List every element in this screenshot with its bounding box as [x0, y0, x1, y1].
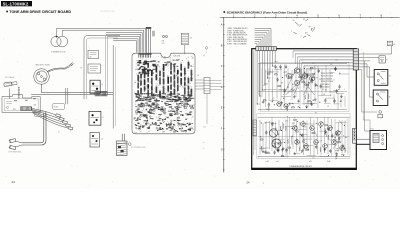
svg-text:24: 24 [12, 180, 16, 184]
tone arm drive motor [51, 36, 68, 47]
svg-text:0.01: 0.01 [340, 101, 343, 103]
svg-text:TR: TR [274, 135, 276, 137]
svg-text:TONE ARM DRIVE CIRCUIT BOARD: TONE ARM DRIVE CIRCUIT BOARD [9, 10, 71, 14]
lower circuit texture [259, 117, 348, 159]
svg-text:4-1: 4-1 [203, 142, 205, 144]
svg-text:0.01: 0.01 [328, 128, 331, 130]
lower left inside ladder connector [253, 120, 256, 136]
upper circuit texture [259, 64, 349, 111]
svg-text:D: D [293, 104, 294, 106]
svg-text:0.01: 0.01 [266, 151, 269, 153]
svg-text:SP: SP [311, 28, 313, 30]
svg-text:10K: 10K [266, 109, 268, 111]
svg-text:100: 100 [322, 89, 324, 91]
wire cam wheel down [41, 84, 43, 92]
right edge connector strip [353, 49, 358, 70]
lower transistors [293, 122, 345, 151]
lower rail wires [258, 116, 350, 158]
callout tag A [35, 111, 46, 116]
transistor Q203 [302, 73, 307, 78]
wire pin ladder down to PCB [184, 45, 186, 54]
parts list text block [321, 73, 333, 89]
svg-text:TONE ARM DRIVE CIRCUIT: TONE ARM DRIVE CIRCUIT [289, 165, 312, 168]
svg-text:G: G [221, 148, 223, 151]
ribbon cable from plug down to board [10, 87, 20, 100]
svg-text:C: C [344, 89, 345, 91]
svg-text:220: 220 [309, 70, 311, 72]
bold wire board to transformer [356, 143, 370, 145]
svg-text:2.2K: 2.2K [320, 141, 323, 143]
svg-text:2 RED : POWER SW B+: 2 RED : POWER SW B+ [227, 30, 244, 32]
PCB pin hatch top left [138, 53, 151, 57]
svg-text:220: 220 [337, 150, 339, 152]
svg-text:202: 202 [297, 24, 300, 26]
fork plug lower [9, 145, 22, 150]
fan plug 4 [66, 124, 71, 127]
chassis bottom hatched connector [95, 91, 107, 96]
svg-text:SvcMnls Net: SvcMnls Net [101, 10, 115, 13]
svg-text:TR: TR [299, 123, 301, 125]
svg-text:33K: 33K [304, 126, 306, 128]
svg-text:TR201 2SC1740S: TR201 2SC1740S [321, 73, 333, 75]
fan plug 1 [56, 114, 61, 118]
decoupling capacitors [274, 65, 287, 69]
bottom margin part labels [266, 161, 331, 163]
svg-text:VR: VR [327, 106, 329, 108]
svg-text:2P: 2P [58, 132, 60, 134]
transistor Q202 [294, 68, 299, 73]
power transformer box T101 [370, 128, 387, 149]
pin ladder connector above PCB [181, 33, 192, 45]
svg-text:-02: -02 [102, 117, 104, 119]
svg-text:4.7K: 4.7K [330, 64, 333, 66]
dotted test point flag [203, 47, 208, 58]
svg-text:R: R [314, 67, 315, 69]
board top edge connector strip [256, 47, 277, 51]
main schematic board frame [252, 49, 357, 169]
adjustment callout arrows [291, 19, 315, 38]
wire harness to PCB 3 [106, 33, 142, 53]
wire harness to PCB 7 [113, 41, 136, 53]
svg-text:SL-1700MK2: SL-1700MK2 [3, 1, 29, 6]
switch box S3 with contacts [90, 80, 103, 93]
fan plug 3 [63, 121, 68, 124]
svg-text:7-0: 7-0 [203, 148, 205, 150]
svg-text:3 ORN : MUTING SW (2P): 3 ORN : MUTING SW (2P) [227, 33, 246, 35]
svg-text:R: R [343, 136, 344, 138]
plug at far left with label [4, 81, 17, 86]
drive motor symbol [269, 129, 281, 148]
svg-text:47: 47 [268, 81, 270, 83]
svg-text:VR: VR [309, 26, 311, 28]
svg-text:10K: 10K [314, 144, 316, 146]
svg-text:PxxB: PxxB [327, 161, 330, 163]
svg-text:3P: 3P [70, 131, 72, 133]
bottom left circuit board outline [2, 95, 40, 113]
transistor Q207 [284, 104, 288, 108]
svg-text:4.7K: 4.7K [284, 75, 287, 77]
chassis base plate outline [84, 36, 120, 129]
switch box S2 on chassis [80, 64, 100, 73]
harness wires to board connector [255, 29, 271, 47]
svg-text:1K: 1K [294, 117, 296, 119]
svg-text:(TO CONTROL UNIT): (TO CONTROL UNIT) [131, 147, 146, 149]
fan plug 2 [59, 117, 64, 121]
svg-text:C: C [221, 65, 223, 68]
svg-text:SUP-1088: SUP-1088 [173, 56, 180, 58]
diagonal coupling wires [284, 70, 316, 95]
svg-text:(TO POWER UNIT): (TO POWER UNIT) [8, 151, 22, 153]
drop cable pair to fork connector [22, 113, 46, 146]
scan noise speckle [1, 0, 399, 188]
screw hole marker [129, 143, 132, 146]
upper rail wires [258, 64, 347, 110]
arm elevation cam wheel [34, 69, 50, 85]
svg-text:2.2K: 2.2K [284, 71, 287, 73]
svg-text:S1: S1 [389, 76, 391, 78]
grid ruler top [220, 14, 400, 19]
right page heading SCHEMATIC DIAGRAM 2 [224, 11, 307, 15]
cable pair to chassis right [42, 92, 114, 94]
switch box S5 [90, 133, 103, 148]
wire stubs PCB to right margin connector [195, 80, 204, 89]
svg-text:S2: S2 [389, 97, 391, 99]
wire motor to PCB 1 [57, 28, 146, 52]
crossing cable verticals [65, 88, 67, 104]
svg-text:100: 100 [335, 59, 337, 61]
svg-text:100: 100 [319, 79, 321, 81]
svg-text:D: D [221, 86, 223, 89]
svg-text:168: 168 [89, 56, 92, 58]
svg-text:SCHEMATIC DIAGRAM 2 (Tone Arm: SCHEMATIC DIAGRAM 2 (Tone Arm Drive Circ… [227, 11, 307, 15]
svg-text:47: 47 [258, 157, 260, 159]
wire margin column down [206, 94, 208, 125]
svg-text:7 GRY : UP/DOWN SW (2P): 7 GRY : UP/DOWN SW (2P) [227, 41, 247, 43]
board edge connector hatched [21, 107, 32, 110]
bus wires to right edge connector [293, 51, 353, 94]
harness wiring note list [227, 27, 248, 45]
callout tag B [53, 104, 65, 110]
transistor Q201 [286, 73, 291, 78]
svg-text:s-101: s-101 [266, 161, 270, 163]
svg-text:4.7K: 4.7K [298, 142, 301, 144]
cable fan from board connector [32, 108, 68, 128]
svg-text:R: R [272, 92, 273, 94]
svg-text:(3P): (3P) [162, 43, 165, 45]
svg-text:506: 506 [190, 38, 193, 40]
svg-text:220: 220 [312, 158, 314, 160]
svg-text:47: 47 [293, 129, 295, 131]
PCB component texture [134, 56, 195, 133]
svg-text:ss22: ss22 [309, 161, 312, 163]
svg-text:PL: PL [386, 59, 388, 61]
AC inlet symbol [388, 41, 396, 46]
svg-text:-01: -01 [101, 84, 103, 86]
transistor Q204 [294, 80, 299, 85]
power switch box S101 [374, 70, 391, 86]
grid ruler left [221, 18, 225, 173]
svg-text:D: D [302, 60, 303, 62]
svg-text:4.7K: 4.7K [292, 123, 295, 125]
fork plug upper [9, 139, 22, 143]
svg-text:-03: -03 [101, 139, 103, 141]
svg-text:7-01: 7-01 [203, 127, 206, 129]
transistor Q206 [277, 102, 281, 106]
svg-text:47: 47 [333, 79, 335, 81]
cut switch box S102 [373, 90, 390, 106]
fuse holder symbol [378, 111, 383, 118]
switch box S4 with contacts [89, 111, 104, 125]
model label plate SL-1700MK2 [1, 1, 32, 6]
svg-text:47: 47 [298, 88, 300, 90]
svg-text:4.7K: 4.7K [285, 120, 288, 122]
component value sprinkle labels [258, 59, 345, 159]
wires into PCB top pins [146, 27, 155, 54]
svg-text:TR204 2SC1740S: TR204 2SC1740S [321, 81, 333, 83]
svg-text:100: 100 [263, 85, 265, 87]
wires from right strip to external parts [359, 46, 392, 131]
svg-text:T101: T101 [370, 128, 374, 130]
wire motor to PCB 2 [62, 30, 144, 52]
board right edge connector [353, 128, 357, 143]
svg-text:5 GRN : ELEV. SW (3P): 5 GRN : ELEV. SW (3P) [227, 37, 244, 39]
svg-text:501: 501 [197, 75, 200, 77]
svg-text:sw-5: sw-5 [276, 161, 279, 163]
connector label group above PCB [162, 35, 168, 44]
upper sub-board outline [261, 62, 350, 112]
right margin connector column [197, 75, 222, 93]
svg-text:4.7K: 4.7K [312, 63, 315, 65]
switch box S1 on chassis [88, 50, 98, 58]
pilot lamp symbol [379, 56, 388, 63]
wire harness to PCB 6 [113, 39, 138, 53]
main frame thick bottom edge [251, 168, 357, 170]
svg-text:201: 201 [303, 19, 306, 21]
tone arm drive circuit board PCB outline [132, 53, 195, 134]
svg-text:VR: VR [281, 156, 283, 158]
svg-text:D: D [287, 117, 288, 119]
inner left long verticals [253, 51, 255, 155]
fan plug 5 [68, 127, 73, 130]
wire harness to PCB 5 [108, 36, 140, 52]
left page heading TONE ARM DRIVE CIRCUIT BOARD [6, 10, 71, 14]
svg-text:TR: TR [265, 123, 267, 125]
svg-text:VR: VR [293, 20, 295, 22]
svg-text:TR202 2SC1740S: TR202 2SC1740S [321, 76, 333, 78]
connector below PCB [117, 134, 128, 156]
svg-text:D: D [259, 121, 260, 123]
svg-text:TR: TR [301, 91, 303, 93]
svg-text:4P WHT: 4P WHT [36, 114, 42, 116]
cable from cam wheel with connector tip [47, 62, 74, 72]
transistor Q205 [309, 76, 314, 81]
svg-text:505: 505 [162, 41, 165, 43]
lower sub-board outline [257, 114, 351, 159]
wire harness to PCB 4 [106, 34, 141, 52]
feed wires from top connector into circuit [257, 51, 279, 105]
